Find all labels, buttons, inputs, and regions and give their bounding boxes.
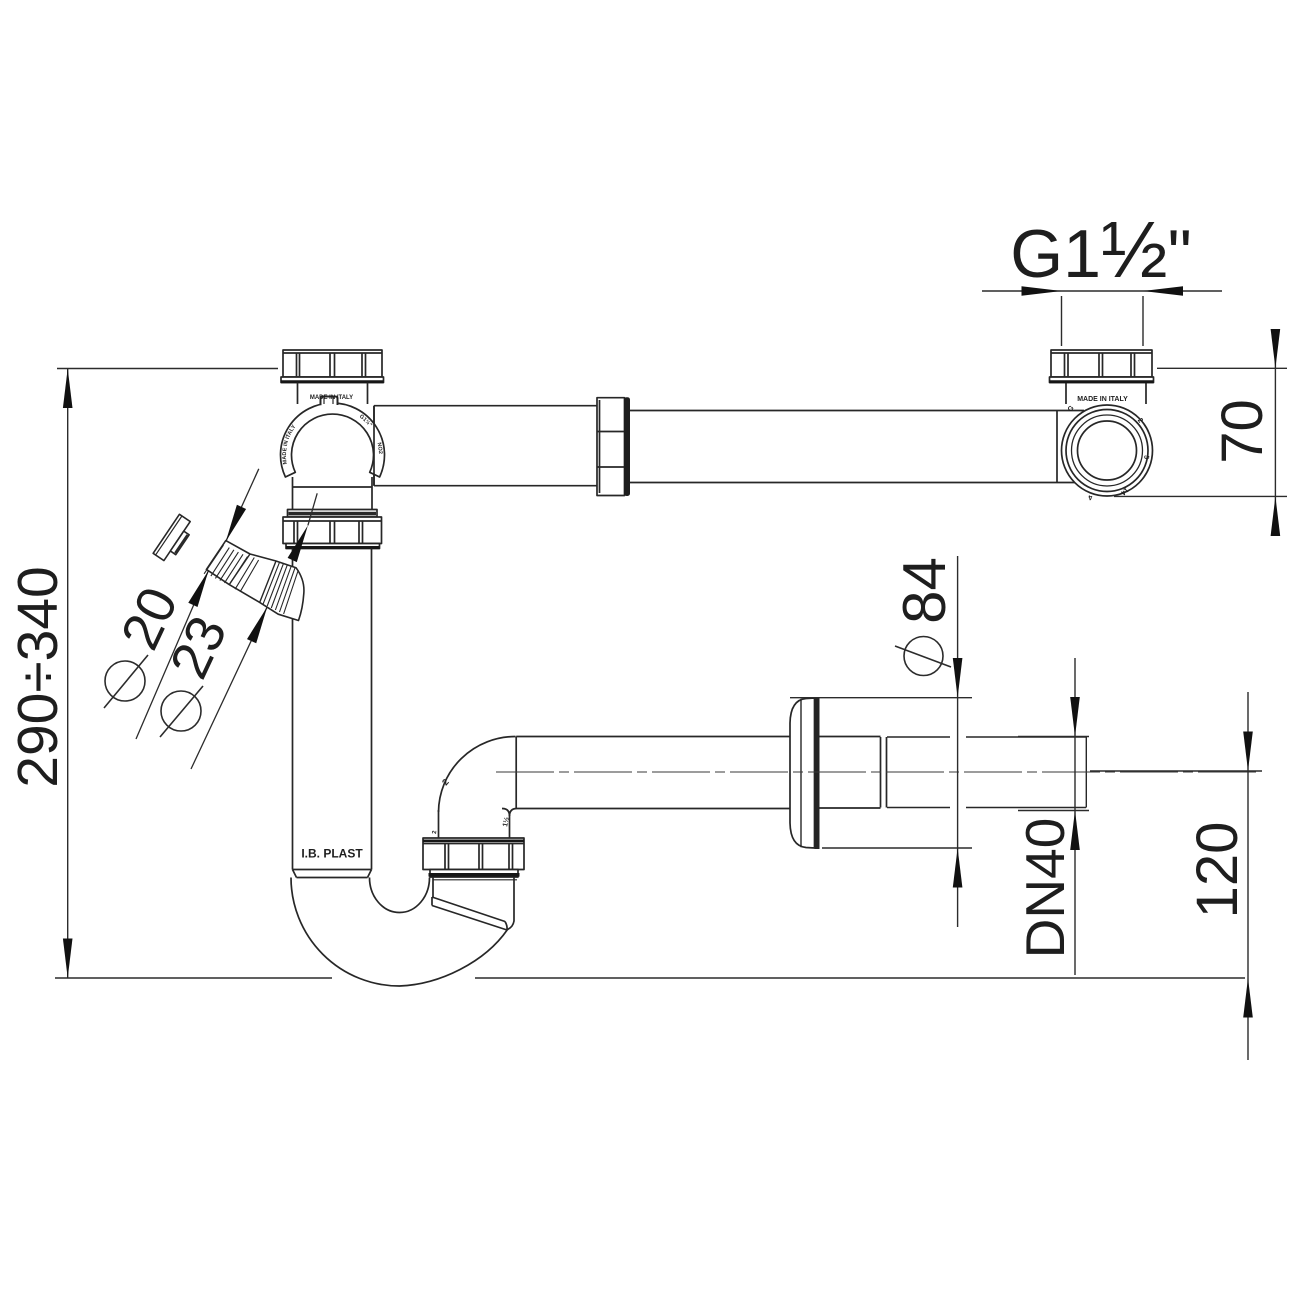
washing machine hose adapter (corrugated, on 45 deg branch) bbox=[204, 541, 304, 621]
svg-text:70: 70 bbox=[1210, 399, 1275, 464]
outlet pipe hidden continuation into wall bbox=[887, 737, 1086, 808]
loose blanking cap for branch bbox=[153, 514, 196, 564]
left tee: cylinder body below dome bbox=[293, 477, 373, 511]
svg-text:I.B. PLAST: I.B. PLAST bbox=[301, 847, 363, 861]
dimension 120 arrows bbox=[1243, 732, 1253, 1018]
horizontal connecting pipe, left segment (tee outlet to coupling) bbox=[374, 406, 597, 486]
dimension DN40 line and extensions bbox=[1018, 658, 1089, 975]
outlet elbow body (90 deg bend) bbox=[439, 736, 517, 838]
dimension 70 line and extensions bbox=[1114, 332, 1287, 536]
dimension 290÷340 vertical line bbox=[55, 369, 1245, 979]
horizontal telescopic pipe, right segment (coupling to right elbow) bbox=[630, 411, 1085, 483]
wall flange (rosette) bbox=[790, 697, 820, 849]
leader arrows for hose dimensions bbox=[188, 505, 308, 644]
left tee: top nut (first sink connection) bbox=[281, 350, 384, 383]
dimension G1 1/2 arrows bbox=[1022, 286, 1184, 296]
right elbow top nut (G1 1/2 sink connection) bbox=[1050, 350, 1154, 383]
U-bend to outlet elbow slanted joint bbox=[432, 897, 507, 930]
dimension DN40 arrows bbox=[1070, 697, 1080, 850]
outlet elbow compression nut bbox=[423, 838, 524, 880]
left tee: short pipe stubs below top nut bbox=[298, 383, 368, 405]
dimension 120 line and extension bbox=[1090, 692, 1262, 1060]
svg-text:290÷340: 290÷340 bbox=[6, 566, 70, 788]
hose leader line A (Ø20) bbox=[136, 469, 259, 739]
hose leader line B (Ø23) bbox=[191, 493, 317, 769]
left tee: lower compression nut bbox=[283, 517, 382, 549]
dimension text Ø20 bbox=[104, 578, 190, 708]
outlet pipe end sleeve ring bbox=[881, 737, 887, 808]
left tee dome molded markings bbox=[282, 414, 383, 465]
svg-text:MADE IN ITALY: MADE IN ITALY bbox=[310, 395, 353, 401]
outlet elbow molded marks bbox=[432, 777, 511, 834]
right elbow body (circular socket face) bbox=[1062, 405, 1153, 496]
right elbow neck lines to nut bbox=[1066, 383, 1146, 405]
left tee: vertical seam line at pipe junction bbox=[373, 406, 375, 486]
svg-text:84: 84 bbox=[891, 557, 958, 624]
dimension Ø84 line and extensions bbox=[790, 556, 972, 927]
left tee: threaded collar ring bbox=[288, 510, 378, 518]
dimension 290÷340 arrows bbox=[63, 369, 73, 979]
left tee: dome (side-inlet sweep) bbox=[281, 403, 385, 477]
svg-text:120: 120 bbox=[1185, 822, 1250, 919]
right elbow molded markings bbox=[1067, 396, 1150, 501]
svg-text:DN40: DN40 bbox=[1014, 818, 1076, 959]
U-bend outer wall bbox=[291, 878, 508, 987]
horizontal outlet pipe to wall bbox=[510, 737, 881, 817]
trap inlet socket flare bbox=[293, 870, 372, 878]
outlet elbow socket collar sides bbox=[433, 878, 514, 930]
compression coupling nut on horizontal pipe bbox=[597, 397, 630, 496]
dimension text Ø23 bbox=[159, 607, 239, 737]
vertical tailpipe down to trap bbox=[293, 549, 372, 870]
left tee: mold tab on dome top bbox=[321, 397, 338, 406]
outlet pipe centreline bbox=[496, 771, 1258, 773]
dimension 70 arrows bbox=[1271, 329, 1281, 536]
dimension G1 1/2 line and extensions bbox=[982, 291, 1222, 346]
svg-text:G1½": G1½" bbox=[1010, 205, 1192, 294]
svg-text:5: 5 bbox=[1142, 455, 1149, 460]
dimension Ø84 arrows bbox=[953, 658, 963, 888]
dimension text Ø84 bbox=[891, 557, 958, 675]
svg-text:MADE IN ITALY: MADE IN ITALY bbox=[1077, 396, 1128, 403]
U-bend inner wall bbox=[370, 878, 430, 913]
